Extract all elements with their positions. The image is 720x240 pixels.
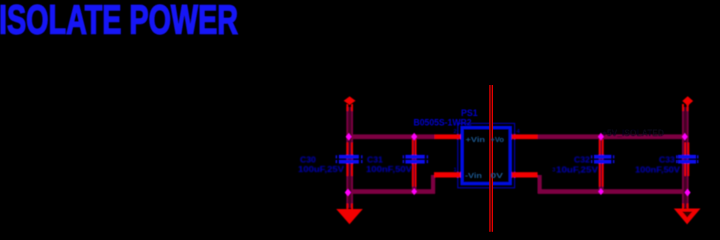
svg-text:0V: 0V: [491, 171, 505, 180]
capacitor C31 plates: [403, 155, 429, 164]
ground symbol right: [674, 209, 701, 225]
svg-text:-Vin: -Vin: [465, 171, 482, 180]
wire: C32 post vertical: [599, 136, 604, 192]
ground symbol left: [336, 209, 363, 224]
svg-text:B0505S-1WR2: B0505S-1WR2: [414, 118, 472, 128]
wire: left vertical link from pin 1 to bottom rail: [431, 175, 435, 194]
wire: bottom rail left (net GND): [347, 189, 435, 194]
wire: left post vertical (double line): [346, 107, 353, 208]
wire: right vertical link from pin 3 to bottom rail: [538, 175, 542, 194]
svg-text:100nF,50V: 100nF,50V: [366, 164, 412, 174]
junction at right post / top rail: [682, 133, 688, 141]
isolation barrier line: [489, 85, 493, 232]
svg-text:2: 2: [454, 129, 457, 135]
svg-text:+Vin: +Vin: [466, 135, 486, 144]
op-amp U1 / DC-DC module body B0505S: [458, 123, 515, 187]
capacitor C30 plates: [336, 155, 363, 164]
svg-text:C31: C31: [367, 155, 383, 165]
svg-text:100uF,25V: 100uF,25V: [298, 164, 344, 174]
capacitor C31 pins (red segments): [412, 140, 417, 187]
capacitor C33 pins (red segments): [682, 104, 689, 210]
svg-text:C33: C33: [659, 154, 675, 164]
svg-text:C30: C30: [300, 155, 316, 165]
power port +5V (left, red diamond): [344, 96, 356, 105]
svg-text:+5V_ISOLATED: +5V_ISOLATED: [602, 128, 664, 138]
svg-text:100nF,50V: 100nF,50V: [635, 164, 680, 174]
junction at left post / bottom rail: [345, 189, 352, 197]
junction at C32 / top rail: [598, 133, 604, 141]
pin 3 (0V) stub: [512, 172, 538, 177]
junction at right post / bottom rail: [684, 189, 690, 197]
power port +5V_ISOLATED (right, red diamond): [682, 96, 693, 106]
wire: C31 post vertical: [412, 136, 417, 192]
wire: top rail right (net +5V_ISOLATED): [538, 134, 688, 139]
junction at C31 / bottom rail: [411, 188, 417, 195]
capacitor C33 plates: [676, 155, 699, 164]
junction at C32 / bottom rail: [598, 188, 604, 195]
svg-text:PS1: PS1: [461, 108, 478, 118]
capacitor C32 plates: [591, 155, 615, 164]
title ISOLATE POWER: [0, 0, 238, 43]
svg-text:+Vo: +Vo: [491, 135, 505, 144]
wire: right post vertical (double line): [682, 107, 689, 208]
svg-text:C32: C32: [574, 155, 590, 165]
wire: bottom rail right (net GND_ISO): [538, 189, 687, 194]
pin 4 (+Vo) stub: [512, 134, 538, 139]
pin 1 (-Vin) stub: [434, 172, 461, 177]
capacitor C32 pins (red segments): [599, 140, 604, 187]
svg-text:10uF,25V: 10uF,25V: [556, 164, 598, 174]
pin 2 (+Vin) stub: [435, 134, 461, 139]
junction at C31 / top rail: [411, 133, 417, 141]
svg-text:ISOLATE POWER: ISOLATE POWER: [0, 0, 238, 43]
wire: top rail left (net +5V): [347, 134, 435, 139]
junction at left post / top rail: [346, 133, 352, 141]
capacitor C30 pins (red segments): [346, 104, 353, 210]
